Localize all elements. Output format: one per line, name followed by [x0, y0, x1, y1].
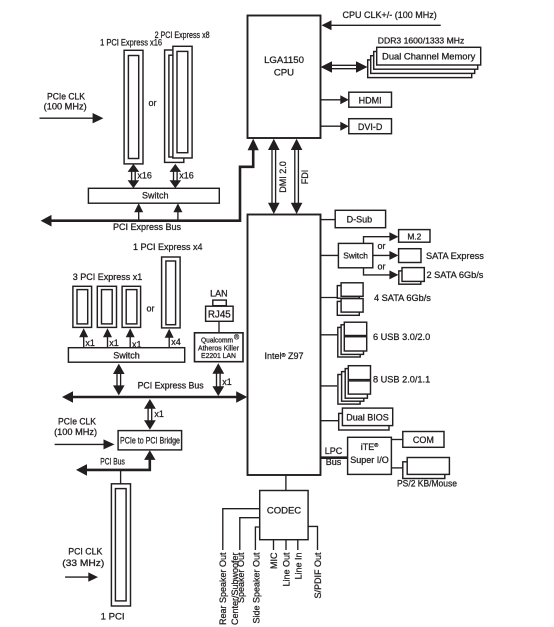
label LPC Bus	[325, 446, 343, 467]
svg-text:FDI: FDI	[300, 170, 310, 185]
double arrow DMI 2.0	[268, 139, 280, 214]
PCIe x1 slot C	[122, 286, 141, 327]
svg-text:LGA1150: LGA1150	[264, 55, 304, 66]
double arrow x16 slot2 to switch	[170, 164, 182, 188]
PCIe x16 slot 1	[124, 50, 143, 164]
double arrow bus to bridge	[144, 399, 156, 430]
svg-text:PCI Bus: PCI Bus	[100, 456, 125, 466]
CODEC box	[260, 491, 308, 540]
arrow up into switch 2	[173, 203, 182, 219]
wire Z97 to SATA switch	[321, 254, 339, 256]
svg-text:HDMI: HDMI	[359, 95, 382, 105]
svg-text:Side Speaker Out: Side Speaker Out	[252, 552, 262, 624]
svg-text:(100 MHz): (100 MHz)	[54, 427, 97, 437]
switch box upper PCIe	[88, 188, 219, 203]
wire switch to 2 SATA	[364, 268, 399, 280]
svg-text:®: ®	[234, 334, 240, 342]
M.2 box	[399, 230, 430, 243]
PS/2 connector boxes	[403, 458, 450, 479]
wire S/PDIF Out	[308, 526, 317, 550]
wire iTE to PS/2	[391, 467, 402, 469]
PCIe to PCI Bridge box	[118, 431, 182, 450]
svg-text:DMI 2.0: DMI 2.0	[278, 161, 288, 193]
arrow up into slot B	[103, 328, 112, 347]
svg-text:S/PDIF Out: S/PDIF Out	[313, 552, 323, 599]
svg-text:x1: x1	[85, 338, 95, 348]
wire Center/Subwoofer	[240, 518, 260, 550]
wire Line In	[297, 540, 299, 550]
svg-text:1 PCI Express x16: 1 PCI Express x16	[100, 38, 162, 48]
svg-text:1 PCI Express x4: 1 PCI Express x4	[133, 242, 203, 252]
switch box SATA	[338, 243, 372, 267]
svg-text:PCIe CLK: PCIe CLK	[47, 91, 85, 101]
SATA Express box	[399, 249, 421, 263]
svg-text:8 USB 2.0/1.1: 8 USB 2.0/1.1	[373, 375, 430, 385]
svg-text:Dual Channel Memory: Dual Channel Memory	[382, 51, 476, 62]
svg-text:(100 MHz): (100 MHz)	[44, 101, 87, 111]
wire PCI Express Bus upper with left arrow up to CPU	[41, 139, 259, 227]
svg-text:PCI Express Bus: PCI Express Bus	[138, 381, 204, 391]
HDMI box	[349, 92, 392, 107]
wire RJ45 to LAN chip	[218, 321, 220, 333]
svg-text:M.2: M.2	[407, 231, 421, 241]
svg-text:DDR3 1600/1333 MHz: DDR3 1600/1333 MHz	[378, 35, 464, 45]
label PCI CLK (33 MHz)	[62, 546, 104, 567]
svg-text:CPU CLK+/- (100 MHz): CPU CLK+/- (100 MHz)	[343, 10, 437, 20]
arrow up into slot x4	[165, 329, 174, 348]
arrow PCIe CLK into x16 slots	[40, 117, 95, 119]
svg-text:or: or	[378, 262, 386, 272]
svg-text:x1: x1	[154, 409, 164, 419]
svg-text:(33 MHz): (33 MHz)	[62, 558, 104, 568]
double arrow FDI	[291, 139, 303, 214]
svg-text:SATA Express: SATA Express	[426, 251, 484, 261]
PCIe x4 slot	[162, 257, 181, 328]
svg-text:or: or	[378, 241, 386, 251]
iTE Super I/O box	[348, 437, 392, 474]
svg-text:6 USB 3.0/2.0: 6 USB 3.0/2.0	[373, 332, 430, 342]
wire Line Out	[285, 540, 287, 550]
svg-text:E2201 LAN: E2201 LAN	[201, 353, 236, 360]
CPU box LGA1150	[248, 16, 321, 139]
PCIe x1 slot B	[97, 286, 116, 327]
8 USB stack	[338, 366, 371, 404]
arrow up into switch 1	[134, 203, 143, 219]
svg-text:MIC: MIC	[269, 552, 279, 569]
wire Z97 to D-Sub	[321, 219, 336, 221]
D-Sub box	[335, 210, 385, 227]
RJ45 connector tab	[213, 300, 227, 306]
svg-text:PS/2 KB/Mouse: PS/2 KB/Mouse	[397, 478, 457, 488]
wire Rear Speaker Out	[223, 509, 260, 550]
svg-text:or: or	[147, 304, 155, 314]
svg-text:x1: x1	[222, 377, 232, 387]
svg-text:Switch: Switch	[113, 351, 140, 361]
wire Z97 to 8 USB	[321, 385, 338, 387]
arrow CPU to DVI-D	[321, 122, 349, 131]
svg-text:2 SATA 6Gb/s: 2 SATA 6Gb/s	[427, 270, 484, 280]
svg-text:D-Sub: D-Sub	[347, 214, 373, 224]
PCIe x8 slot pair front	[173, 46, 192, 158]
Qualcomm Atheros LAN chip	[195, 333, 244, 362]
PCI Express Bus lower thick double arrow	[62, 391, 247, 403]
arrow up into slot C	[126, 328, 135, 347]
PCI slot	[111, 484, 130, 606]
svg-text:x1: x1	[109, 338, 119, 348]
arrow CPU to HDMI	[321, 95, 349, 104]
svg-text:Line In: Line In	[293, 553, 303, 580]
PCIe x1 slot A	[73, 286, 92, 327]
double arrow switch to lower bus	[113, 364, 125, 396]
6 USB stack	[338, 322, 367, 357]
svg-text:COM: COM	[413, 435, 434, 445]
svg-text:Speaker Out: Speaker Out	[236, 552, 246, 603]
PCI Bus wire	[76, 450, 156, 475]
wire Z97 to CODEC	[285, 475, 287, 491]
wire Z97 to 6 USB	[321, 334, 339, 336]
double arrow x16 slot1 to switch	[128, 164, 140, 188]
arrow CPU CLK into CPU	[322, 20, 441, 30]
Dual Channel Memory stack	[368, 47, 481, 77]
arrow up into slot A	[79, 328, 88, 347]
label PCIe CLK (100 MHz) bridge	[54, 416, 97, 437]
wire Side Speaker Out	[255, 527, 259, 550]
chipset box Intel Z97	[248, 215, 321, 476]
svg-text:Switch: Switch	[343, 250, 368, 260]
wire iTE to COM	[391, 439, 402, 441]
svg-text:x16: x16	[137, 171, 152, 181]
wire switch to M.2	[364, 232, 399, 243]
RJ45 box	[206, 306, 234, 321]
svg-text:DVI-D: DVI-D	[358, 122, 383, 132]
svg-text:x16: x16	[179, 171, 194, 181]
wire MIC	[273, 540, 275, 550]
svg-text:LAN: LAN	[210, 289, 228, 299]
svg-text:Line Out: Line Out	[282, 552, 292, 587]
svg-text:4 SATA 6Gb/s: 4 SATA 6Gb/s	[374, 293, 431, 303]
arrow PCIe CLK into bridge	[55, 439, 115, 449]
svg-text:PCIe to PCI Bridge: PCIe to PCI Bridge	[120, 435, 180, 445]
svg-text:x4: x4	[171, 337, 181, 347]
svg-text:PCIe CLK: PCIe CLK	[58, 416, 96, 426]
svg-text:Qualcomm: Qualcomm	[201, 337, 233, 344]
svg-text:LPC: LPC	[325, 446, 343, 456]
wire bus to PCI slot	[120, 471, 122, 484]
svg-text:CODEC: CODEC	[267, 505, 301, 516]
wire Z97 to Dual BIOS	[321, 420, 340, 422]
LPC Bus thick wire	[321, 456, 348, 459]
svg-text:Bus: Bus	[326, 457, 342, 467]
svg-text:Super I/O: Super I/O	[350, 455, 389, 465]
svg-text:Rear Speaker Out: Rear Speaker Out	[218, 552, 228, 625]
2 SATA boxes	[399, 268, 425, 285]
COM box	[403, 432, 444, 448]
svg-text:3 PCI Express x1: 3 PCI Express x1	[73, 272, 143, 282]
double arrow LAN chip to bus	[212, 363, 224, 396]
wire Z97 to 4 SATA	[321, 297, 339, 299]
svg-text:Dual BIOS: Dual BIOS	[346, 412, 389, 422]
svg-text:PCI CLK: PCI CLK	[68, 546, 102, 556]
svg-text:Atheros Killer: Atheros Killer	[198, 345, 240, 352]
svg-text:1 PCI: 1 PCI	[101, 611, 125, 622]
svg-text:2 PCI Express x8: 2 PCI Express x8	[155, 30, 210, 40]
svg-text:RJ45: RJ45	[208, 309, 231, 320]
DVI-D box	[349, 119, 392, 134]
PCIe x8 slot pair back	[165, 50, 184, 162]
Dual BIOS boxes	[339, 408, 393, 430]
svg-text:CPU: CPU	[274, 68, 294, 79]
svg-text:Switch: Switch	[142, 191, 169, 201]
svg-text:PCI Express Bus: PCI Express Bus	[113, 222, 182, 232]
4 SATA stack	[337, 283, 363, 316]
arrow switch to SATA Express	[373, 251, 399, 260]
svg-text:or: or	[149, 98, 157, 108]
switch box lower PCIe	[68, 348, 184, 363]
double arrow CPU to memory	[321, 61, 368, 72]
arrow PCI CLK into slot	[65, 572, 98, 581]
